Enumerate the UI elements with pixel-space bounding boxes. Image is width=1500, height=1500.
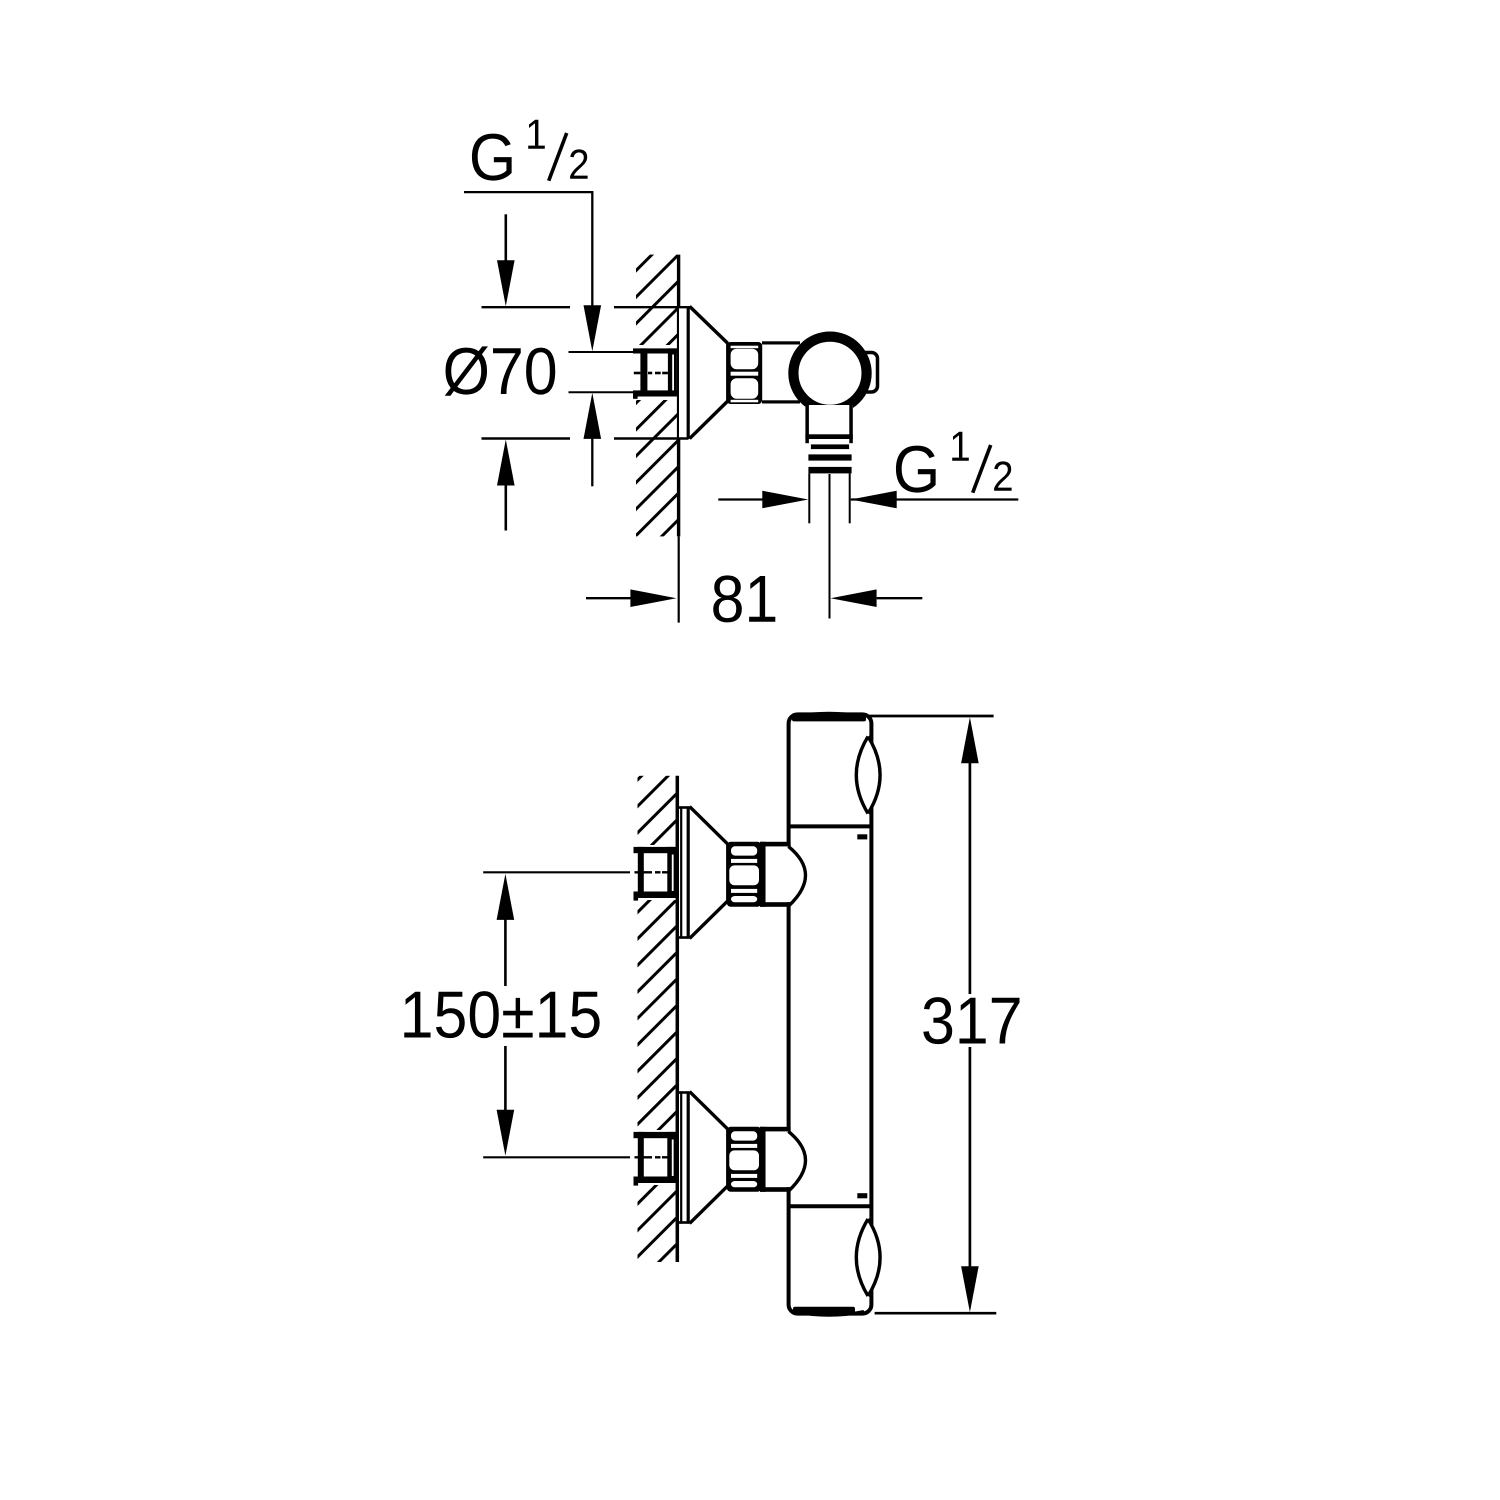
top view: union hex nut	[727, 342, 763, 404]
upper connection: escutcheon plate and cone	[679, 806, 728, 939]
dimension 81: line and arrows	[586, 597, 634, 599]
upper connection: connector piece to bar	[760, 842, 766, 907]
top view: hose coupling nut bands	[811, 444, 849, 449]
top view: side tab on valve body	[856, 353, 878, 393]
bottom view: mixer bar body	[789, 714, 872, 1313]
label 81	[713, 575, 775, 622]
top view: wall face line	[677, 255, 680, 537]
lower connection: socket stub in wall	[634, 1132, 677, 1138]
upper connection: connector dome cap	[788, 846, 805, 906]
lower connection: connector dome cap	[788, 1131, 805, 1191]
dimension 317: arrows and line	[961, 717, 979, 763]
bar top cap band	[792, 714, 866, 721]
top view: valve inlet body edges	[762, 341, 800, 344]
safety stop tick upper	[857, 834, 867, 839]
top view: wall hatching	[636, 255, 677, 537]
lower grip lens on right edge	[856, 1219, 880, 1296]
upper grip lens on right edge	[856, 737, 880, 814]
arrow up to pipe bottom edge (G 1/2)	[584, 393, 602, 439]
label G 1/2 (top, wall connection)	[472, 134, 512, 181]
lower connection: escutcheon plate and cone	[679, 1091, 728, 1224]
top view: hose centerline (81 dim extension)	[829, 474, 831, 619]
upper connection: socket stub in wall	[634, 847, 677, 853]
leader line for G 1/2	[464, 191, 593, 193]
safety stop tick lower	[857, 1193, 867, 1198]
dimension 317: extension lines	[845, 715, 994, 718]
top view: outlet below valve	[805, 405, 852, 439]
dimension G 1/2 at hose: line and arrows	[718, 498, 766, 500]
top view: pipe centerline	[634, 372, 641, 375]
bar separator line below knob	[789, 824, 872, 828]
arrow down to pipe top edge (G 1/2)	[584, 305, 602, 351]
dimension 150 +/- 15	[497, 874, 515, 920]
label 150 +/- 15	[404, 991, 599, 1038]
bar bottom cap band	[793, 1307, 855, 1314]
upper connection: centerline	[483, 871, 630, 873]
top view: supply pipe	[569, 351, 642, 353]
top view: wall extension line (81 dim)	[678, 536, 680, 622]
bottom view: wall face line	[676, 776, 680, 1262]
label 317	[923, 997, 1019, 1044]
top view: pipe socket stub in wall	[633, 348, 677, 353]
top view: escutcheon plate and cone	[679, 306, 728, 439]
top view: shower hose	[808, 473, 810, 523]
upper connection: union hex nut	[727, 842, 762, 907]
top view: valve body circle	[793, 337, 866, 410]
lower connection: union hex nut	[727, 1127, 762, 1192]
dimension 70: arrows	[504, 214, 507, 263]
bottom view: wall hatching	[638, 776, 676, 1262]
dimension 70: extension lines	[482, 306, 571, 308]
lower connection: centerline	[483, 1156, 630, 1158]
bar separator line above bottom	[789, 1204, 872, 1208]
label G 1/2 (hose)	[896, 446, 936, 493]
lower connection: connector piece to bar	[760, 1127, 766, 1192]
label diameter 70	[445, 346, 555, 395]
